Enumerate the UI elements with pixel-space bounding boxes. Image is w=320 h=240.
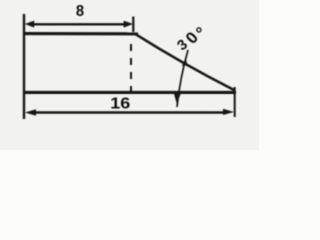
svg-text:16: 16 <box>110 96 130 113</box>
svg-text:8: 8 <box>76 3 84 20</box>
